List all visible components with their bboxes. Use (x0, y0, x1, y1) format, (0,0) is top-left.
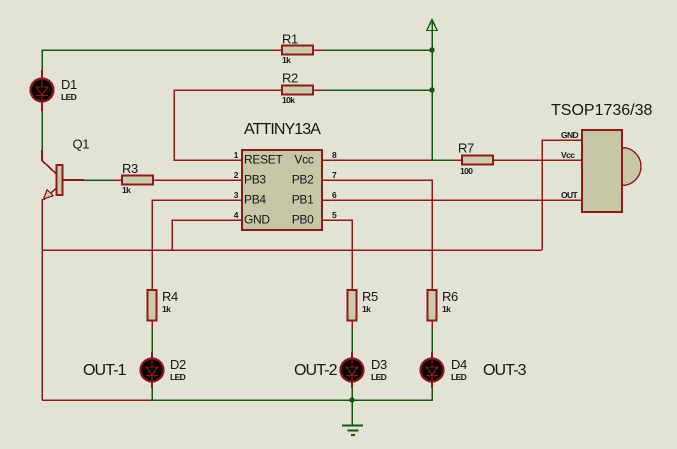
wire IC pin 6 PB1 to TSOP OUT pin (red) (322, 199, 582, 201)
svg-text:6: 6 (332, 190, 337, 200)
wire IC pin 7 PB2 to R6 (red) (322, 180, 432, 290)
svg-text:OUT-2: OUT-2 (294, 362, 338, 379)
node junction at R2/power rail (429, 87, 434, 92)
resistor R7 (453, 141, 493, 177)
wire top-left horizontal from D1 to R1 (green) (42, 50, 272, 70)
wire R3 to IC pin 2 PB3 (red) (153, 179, 242, 181)
pin 3 PB4 (234, 190, 267, 207)
wire Q1 base to R3 (green) (84, 179, 112, 181)
svg-text:OUT: OUT (561, 190, 579, 200)
svg-text:100: 100 (460, 166, 473, 176)
svg-text:RESET: RESET (244, 153, 283, 167)
LED D1 (31, 70, 77, 111)
wire Q1 emitter down left rail (red) (41, 199, 43, 400)
node junction at R1/power rail (429, 47, 434, 52)
svg-text:3: 3 (234, 190, 239, 200)
wire D1 to Q1 collector (green) (41, 102, 43, 150)
svg-text:D3: D3 (371, 357, 387, 372)
svg-text:OUT-1: OUT-1 (83, 362, 127, 379)
svg-text:PB2: PB2 (292, 173, 314, 187)
svg-text:8: 8 (332, 150, 337, 160)
svg-text:LED: LED (451, 372, 467, 382)
svg-text:R2: R2 (282, 71, 298, 86)
LED D4 (421, 352, 467, 388)
wire power rail vertical (green) (431, 20, 433, 160)
wire ground bus y=250 (red) (42, 249, 542, 251)
pin 6 PB1 (292, 190, 337, 207)
wire R1 right to power rail (green) (323, 49, 432, 51)
svg-text:5: 5 (332, 210, 337, 220)
resistor R5 (348, 289, 378, 329)
IR receiver TSOP1736/38 (551, 102, 653, 212)
wire IC pin 3 PB4 to R4 (red) (152, 200, 242, 290)
svg-text:PB1: PB1 (292, 193, 314, 207)
svg-text:PB3: PB3 (244, 173, 266, 187)
svg-text:R6: R6 (442, 289, 458, 304)
wire IC pin 4 GND down to ground bus (red) (172, 220, 242, 250)
svg-text:R3: R3 (122, 161, 138, 176)
svg-text:GND: GND (244, 213, 270, 227)
svg-text:Q1: Q1 (73, 137, 90, 152)
svg-text:1k: 1k (362, 304, 371, 314)
svg-text:LED: LED (371, 372, 387, 382)
svg-text:R5: R5 (362, 289, 378, 304)
resistor R6 (428, 289, 458, 329)
svg-text:LED: LED (61, 92, 77, 102)
wire power rail to R7 (green) (432, 159, 453, 161)
svg-text:R7: R7 (458, 141, 474, 156)
pin 2 PB3 (234, 170, 267, 187)
wire ground bus up to TSOP GND pin (red) (542, 140, 582, 250)
power symbol arrow (427, 20, 437, 31)
resistor R1 (272, 32, 323, 66)
svg-text:D4: D4 (451, 357, 467, 372)
svg-text:PB0: PB0 (292, 213, 314, 227)
resistor R4 (148, 289, 178, 329)
wire D3 to bottom bus (green) (351, 388, 353, 400)
node junction at ground tap (349, 397, 354, 402)
svg-text:1k: 1k (442, 304, 451, 314)
svg-text:10k: 10k (282, 95, 295, 105)
svg-text:1k: 1k (282, 55, 291, 65)
LED D2 (141, 352, 186, 388)
op-amp U1 ATTINY13A body (242, 121, 322, 230)
svg-text:LED: LED (170, 372, 186, 382)
wire R7 to TSOP Vcc pin (red) (493, 159, 582, 161)
svg-text:2: 2 (234, 170, 239, 180)
svg-text:1k: 1k (162, 304, 171, 314)
svg-text:Vcc: Vcc (294, 153, 313, 167)
svg-text:GND: GND (561, 130, 579, 140)
svg-text:D2: D2 (170, 357, 186, 372)
wire R5 to D3 (green) (351, 329, 353, 352)
resistor R2 (282, 71, 323, 106)
wire IC pin 5 PB0 to R5 (red) (322, 220, 352, 290)
pin 1 RESET (234, 150, 284, 167)
wire IC pin 8 Vcc to power rail (red) (322, 159, 432, 161)
wire R2 left to RESET loop (red) (174, 90, 282, 160)
pin 4 GND (234, 210, 271, 227)
pin 7 PB2 (292, 170, 337, 187)
wire R2 right to power rail (green) (323, 89, 432, 91)
svg-text:1: 1 (234, 150, 239, 160)
svg-text:4: 4 (234, 210, 239, 220)
svg-text:OUT-3: OUT-3 (483, 362, 527, 379)
svg-text:D1: D1 (61, 77, 77, 92)
pin 5 PB0 (292, 210, 337, 227)
wire D2 to bottom bus (green) (151, 388, 153, 400)
transistor Q1 (42, 137, 89, 200)
pin 8 Vcc (294, 150, 337, 167)
svg-text:7: 7 (332, 170, 337, 180)
resistor R3 (112, 161, 153, 195)
svg-text:PB4: PB4 (244, 193, 266, 207)
LED D3 (341, 352, 387, 388)
wire R6 to D4 (green) (431, 329, 433, 352)
ground (342, 400, 363, 435)
svg-text:TSOP1736/38: TSOP1736/38 (551, 102, 653, 119)
svg-text:Vcc: Vcc (561, 150, 575, 160)
svg-text:R4: R4 (162, 289, 178, 304)
svg-text:ATTINY13A: ATTINY13A (244, 121, 321, 138)
wire bottom bus left red segment (42, 399, 152, 401)
svg-text:R1: R1 (282, 32, 298, 47)
wire R4 to D2 (green) (151, 329, 153, 352)
svg-text:1k: 1k (122, 185, 131, 195)
wire bottom bus green segment to D4 (152, 388, 432, 400)
